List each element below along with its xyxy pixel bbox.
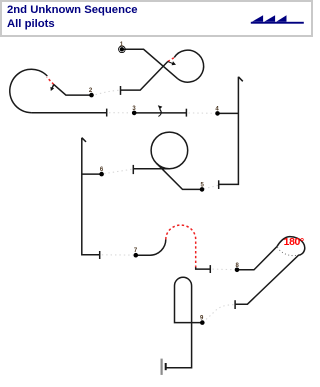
- svg-text:8: 8: [236, 263, 240, 269]
- svg-text:180°: 180°: [284, 237, 304, 248]
- svg-text:7: 7: [134, 248, 138, 254]
- svg-text:1: 1: [120, 42, 124, 48]
- svg-text:5: 5: [201, 182, 205, 188]
- svg-text:6: 6: [100, 167, 104, 173]
